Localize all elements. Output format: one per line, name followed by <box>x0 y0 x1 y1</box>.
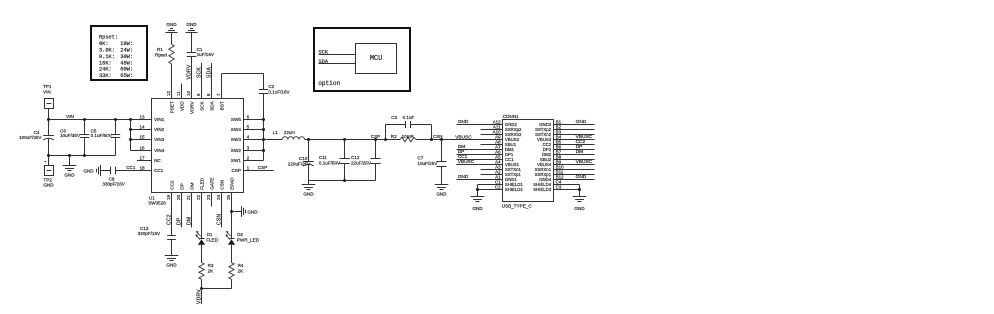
wire SW bus <box>244 118 266 161</box>
svg-text:16K:: 16K: <box>99 60 112 66</box>
svg-text:MCU: MCU <box>370 55 383 63</box>
wire SCK to MCU <box>319 54 356 56</box>
wire output cap ground rail <box>309 180 376 182</box>
svg-text:SW3: SW3 <box>231 137 241 142</box>
svg-text:9: 9 <box>196 93 201 96</box>
wire CSP pin 1 <box>244 170 274 172</box>
svg-text:14: 14 <box>139 124 145 129</box>
U1 right pin numbers 6-1 <box>247 114 250 170</box>
svg-text:2K: 2K <box>208 269 215 274</box>
U1 top pin numbers 12-7 <box>166 91 221 97</box>
wire TP1 to VIN rail <box>48 109 50 120</box>
svg-text:CC1: CC1 <box>154 168 164 173</box>
svg-text:VDRV: VDRV <box>197 289 203 304</box>
wire R1 to PSET pin 12 <box>171 64 173 99</box>
capacitor C12 22uF/25V <box>351 140 381 181</box>
svg-text:GND: GND <box>186 22 197 27</box>
svg-text:SCK: SCK <box>197 67 203 78</box>
svg-text:C3: C3 <box>556 184 562 189</box>
wire C1 to VDRV pin 10 <box>191 57 193 99</box>
svg-text:option: option <box>318 80 340 87</box>
capacitor C6 10uF/35V <box>60 120 89 156</box>
svg-text:VBUSC: VBUSC <box>576 159 593 165</box>
wire EPAD pin 25 down <box>231 193 233 239</box>
svg-text:SW3526: SW3526 <box>148 201 166 206</box>
svg-text:SW4: SW4 <box>231 127 241 132</box>
svg-text:VIN1: VIN1 <box>154 117 165 122</box>
svg-text:SW1: SW1 <box>231 158 241 163</box>
ground below C10 <box>302 181 316 197</box>
wire SDA pin 8 <box>211 63 213 99</box>
wire D1 to R3 <box>201 245 203 263</box>
svg-text:330pF/16V: 330pF/16V <box>102 181 125 186</box>
svg-text:19: 19 <box>166 194 171 200</box>
svg-text:VDRV: VDRV <box>189 100 194 114</box>
svg-text:VIN4: VIN4 <box>154 148 165 153</box>
node VDRV label (rotated) <box>201 289 203 305</box>
svg-text:65W:: 65W: <box>120 73 133 79</box>
svg-text:SDA: SDA <box>209 100 214 110</box>
svg-text:24K:: 24K: <box>99 67 112 73</box>
pin 17 NC stub <box>137 160 152 162</box>
svg-text:SW5: SW5 <box>231 117 241 122</box>
ground below C7 <box>435 185 449 197</box>
svg-text:33K:: 33K: <box>99 73 112 79</box>
connector CONN1 USB_TYPE_C body <box>502 114 554 208</box>
U1 bottom pin numbers 19-25 <box>166 194 231 200</box>
connector left pin stubs and designators <box>457 119 503 189</box>
svg-text:USB_TYPE_C: USB_TYPE_C <box>502 203 533 208</box>
svg-text:C7: C7 <box>417 156 423 161</box>
svg-text:GND: GND <box>83 168 94 173</box>
svg-text:22uF/25V: 22uF/25V <box>351 160 372 165</box>
svg-text:VIN2: VIN2 <box>154 127 165 132</box>
ground flag above R1 <box>166 22 178 33</box>
resistor R2 10mR <box>391 134 416 142</box>
wire SCK pin 9 <box>201 63 203 99</box>
svg-text:330pF/16V: 330pF/16V <box>138 231 161 236</box>
svg-text:0.1uF/50V: 0.1uF/50V <box>319 160 341 165</box>
left shield ground <box>471 185 485 212</box>
wire R4 to VDRV rail <box>231 279 233 288</box>
wire GATE pin 23 stub <box>211 193 213 207</box>
svg-text:CSN: CSN <box>433 134 443 139</box>
svg-text:1: 1 <box>247 165 250 170</box>
svg-text:0.1uF/16V: 0.1uF/16V <box>268 89 290 94</box>
IC U1 SW3526 body <box>148 99 243 206</box>
svg-text:D2: D2 <box>237 232 243 237</box>
svg-text:0.1uF: 0.1uF <box>403 115 415 120</box>
wire C13 to ground <box>171 240 173 256</box>
svg-text:1uF/16V: 1uF/16V <box>197 52 215 57</box>
svg-text:GND: GND <box>472 206 483 211</box>
svg-text:10uF/25V: 10uF/25V <box>417 161 438 166</box>
wire R2 to connector VBUS <box>416 139 503 141</box>
svg-text:22uH: 22uH <box>284 130 295 135</box>
svg-text:24: 24 <box>216 194 221 200</box>
svg-text:17: 17 <box>139 155 145 160</box>
svg-text:3.9K:: 3.9K: <box>99 47 115 53</box>
svg-text:DP: DP <box>179 183 184 189</box>
test point TP1 VIN <box>43 84 54 108</box>
svg-text:Rpset:: Rpset: <box>99 35 118 41</box>
capacitor C10 220uF/25V <box>288 140 314 181</box>
svg-text:GND: GND <box>303 192 314 197</box>
capacitor C3 0.1uF bypass branch <box>386 115 432 140</box>
wire DM pin 21 stub <box>191 193 193 228</box>
U1 left pin names VIN1-VIN4 NC CC1 <box>154 117 165 173</box>
wire cap rail to TP2 <box>48 156 50 166</box>
MCU option box <box>314 28 410 91</box>
resistor R1 Rpset <box>155 44 174 64</box>
inductor L1 22uH <box>264 130 305 139</box>
svg-text:GND: GND <box>436 191 447 196</box>
svg-text:PWR_LED: PWR_LED <box>237 238 260 243</box>
svg-text:18: 18 <box>139 165 145 170</box>
capacitor C4 100uF/35V <box>19 120 54 156</box>
svg-text:VIN: VIN <box>66 114 75 120</box>
svg-text:BST: BST <box>219 101 224 110</box>
svg-text:24W:: 24W: <box>120 47 133 53</box>
wire C8 to CC1 pin 18 <box>116 170 152 172</box>
svg-text:0K:: 0K: <box>99 41 109 47</box>
svg-text:CSP: CSP <box>258 165 267 170</box>
svg-text:GND: GND <box>43 183 54 188</box>
wire FLED pin 22 to D1 <box>201 193 203 239</box>
ground below cap rail <box>63 156 77 178</box>
svg-text:2: 2 <box>247 155 250 160</box>
svg-text:11: 11 <box>176 91 181 96</box>
right shield ground <box>573 185 587 212</box>
resistor R3 2K <box>199 263 214 280</box>
svg-text:9.1K:: 9.1K: <box>99 54 115 60</box>
wire VIN bus to VIN2-VIN4 <box>129 120 152 151</box>
wire cap ground rail <box>49 155 116 157</box>
wire BST pin 7 to C2 <box>222 74 264 99</box>
svg-text:C2: C2 <box>495 184 501 189</box>
svg-text:U1: U1 <box>149 195 155 200</box>
svg-text:R3: R3 <box>208 263 214 268</box>
svg-text:VDD: VDD <box>179 101 184 111</box>
svg-text:D1: D1 <box>207 232 213 237</box>
svg-text:3: 3 <box>247 145 250 150</box>
svg-text:VBUSC: VBUSC <box>458 159 475 165</box>
svg-text:SHIELD3: SHIELD3 <box>533 187 552 192</box>
U1 left pin numbers 13-18 <box>139 114 145 170</box>
svg-text:220uF/25V: 220uF/25V <box>288 162 311 167</box>
resistor R4 2K <box>229 263 244 280</box>
svg-text:10mR: 10mR <box>402 134 415 139</box>
ground below C13 <box>165 256 179 268</box>
svg-text:R4: R4 <box>238 263 244 268</box>
wire CC2 pin 19 to C13 <box>171 193 173 236</box>
wire DP pin 20 stub <box>181 193 183 228</box>
connector right pin stubs and designators <box>554 119 595 189</box>
capacitor C2 0.1uF/16V <box>259 84 291 94</box>
LED D2 PWR_LED <box>226 231 260 245</box>
wire L1 to R2 rail <box>305 139 401 141</box>
svg-text:TP1: TP1 <box>43 84 52 89</box>
svg-text:13: 13 <box>139 114 145 119</box>
U1 top pin names PSET VDD VDRV SCK SDA BST <box>169 100 224 114</box>
svg-text:C10: C10 <box>299 156 308 161</box>
svg-text:SHIELD2: SHIELD2 <box>505 187 524 192</box>
svg-text:10: 10 <box>186 91 191 97</box>
svg-text:23: 23 <box>206 194 211 200</box>
wire ground to C8 <box>101 170 111 172</box>
svg-text:C3: C3 <box>391 115 397 120</box>
svg-text:PSET: PSET <box>169 101 174 113</box>
svg-text:VIN3: VIN3 <box>154 137 165 142</box>
wire C2 to SW bus <box>263 94 265 120</box>
svg-text:VBUSC: VBUSC <box>455 134 472 140</box>
svg-text:CC1: CC1 <box>126 165 136 170</box>
capacitor C5 0.1uF/50V <box>91 120 121 156</box>
svg-text:CSP: CSP <box>371 134 380 139</box>
Rpset power table <box>91 26 147 80</box>
svg-text:6: 6 <box>247 114 250 119</box>
wire GND to R1 <box>171 33 173 45</box>
wire D2 to R4 <box>231 245 233 263</box>
wire EPAD to ground <box>232 211 242 213</box>
wire R3 to VDRV rail <box>201 279 203 288</box>
svg-text:GND: GND <box>574 206 585 211</box>
svg-text:SDA: SDA <box>207 67 213 78</box>
capacitor C1 1uF/16V <box>187 47 215 57</box>
connector pin names <box>505 122 552 192</box>
capacitor C7 10uF/25V <box>417 140 446 185</box>
junction dots on VIN rail <box>47 118 50 121</box>
wire SDA to MCU <box>319 63 356 65</box>
svg-text:FLED: FLED <box>199 177 204 189</box>
svg-text:GND: GND <box>166 22 177 27</box>
svg-text:GND: GND <box>166 263 177 268</box>
svg-text:CONN1: CONN1 <box>503 114 520 119</box>
svg-text:15: 15 <box>139 134 145 139</box>
svg-text:8: 8 <box>206 93 211 96</box>
svg-text:CC2: CC2 <box>169 180 174 190</box>
svg-text:GND: GND <box>247 210 258 215</box>
svg-text:10uF/35V: 10uF/35V <box>60 133 81 138</box>
svg-text:60W:: 60W: <box>120 67 133 73</box>
svg-text:2K: 2K <box>238 269 245 274</box>
svg-text:EPAD: EPAD <box>229 177 234 190</box>
svg-text:GND: GND <box>576 174 587 180</box>
svg-text:NC: NC <box>154 158 161 163</box>
U1 bottom pin names CC2 DP DM FLED GATE CSN EPAD <box>169 177 234 190</box>
svg-text:GND: GND <box>576 119 587 125</box>
svg-text:R2: R2 <box>391 134 397 139</box>
svg-text:VIN: VIN <box>43 90 51 95</box>
svg-text:20: 20 <box>176 194 181 200</box>
svg-text:CSN: CSN <box>217 214 223 225</box>
wire VDD pin 11 stub <box>181 84 183 99</box>
svg-text:30W:: 30W: <box>120 54 133 60</box>
svg-text:0.1uF/50V: 0.1uF/50V <box>91 133 113 138</box>
svg-text:DP: DP <box>177 217 183 225</box>
test point TP2 GND <box>43 162 54 188</box>
svg-text:C12: C12 <box>351 155 360 160</box>
svg-text:12: 12 <box>166 91 171 97</box>
svg-text:16: 16 <box>139 145 145 150</box>
capacitor C8 330pF/16V <box>102 167 125 187</box>
capacitor C13 330pF/16V <box>138 226 176 239</box>
svg-text:SW2: SW2 <box>231 148 241 153</box>
ground at EPAD <box>242 206 259 217</box>
svg-text:5: 5 <box>247 124 250 129</box>
svg-text:CSP: CSP <box>231 168 240 173</box>
svg-text:VDRV: VDRV <box>187 64 193 79</box>
svg-text:22: 22 <box>196 194 201 200</box>
wire VIN rail <box>49 119 152 121</box>
capacitor C11 0.1uF/50V <box>319 140 350 181</box>
svg-text:GND: GND <box>458 174 469 180</box>
svg-text:DM: DM <box>189 182 194 189</box>
svg-text:45W:: 45W: <box>120 60 133 66</box>
svg-text:FLED: FLED <box>206 238 218 243</box>
wire GND to C1 <box>191 33 193 53</box>
svg-text:DM: DM <box>187 217 193 225</box>
svg-text:CC2: CC2 <box>167 214 173 225</box>
svg-text:GATE: GATE <box>209 178 214 190</box>
ground flag above C1 <box>186 22 198 33</box>
svg-text:DM: DM <box>576 149 583 155</box>
svg-text:CSN: CSN <box>219 180 224 190</box>
svg-text:GND: GND <box>458 119 469 125</box>
svg-text:18W:: 18W: <box>120 41 133 47</box>
svg-text:21: 21 <box>186 194 191 200</box>
ground at C8 <box>83 165 100 176</box>
svg-text:C11: C11 <box>319 155 328 160</box>
svg-text:TP2: TP2 <box>43 177 52 182</box>
svg-text:GND: GND <box>64 172 75 177</box>
svg-text:7: 7 <box>216 93 221 96</box>
svg-text:Rpset: Rpset <box>155 52 168 57</box>
svg-text:4: 4 <box>247 134 250 139</box>
wire VDRV rail <box>202 288 232 290</box>
svg-text:L1: L1 <box>273 130 279 135</box>
LED D1 FLED <box>196 231 219 245</box>
svg-text:25: 25 <box>226 194 231 200</box>
wire CSN pin 24 stub <box>221 193 223 228</box>
svg-text:C1: C1 <box>197 47 203 52</box>
svg-text:SCK: SCK <box>199 100 204 110</box>
U1 right pin names SW5-SW1 CSP <box>231 117 241 173</box>
svg-text:100uF/35V: 100uF/35V <box>19 135 42 140</box>
